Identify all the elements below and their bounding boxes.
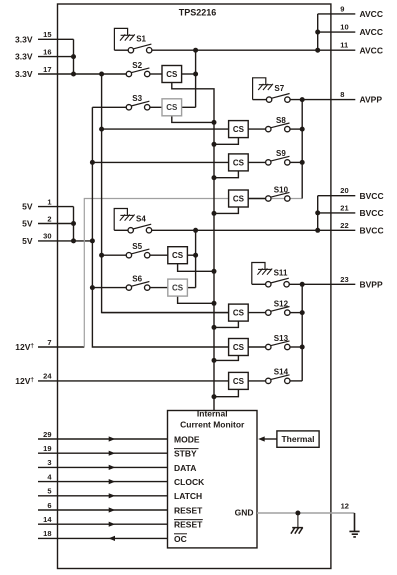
svg-text:RESET: RESET: [174, 505, 203, 515]
wire S3 input 5V: [92, 106, 126, 108]
signal arrow Thermal: [258, 436, 265, 441]
wire S6 CS sense link junction: [212, 301, 217, 306]
svg-text:S12: S12: [274, 299, 289, 308]
junction S5 output: [193, 253, 198, 258]
pin 24 stub 12V / S14 input wire: [38, 380, 229, 382]
wire S10 inter: [248, 198, 265, 200]
svg-text:TPS2216: TPS2216: [179, 7, 217, 17]
signal arrow LATCH: [109, 493, 116, 498]
svg-text:S2: S2: [132, 61, 142, 70]
junction S9 input: [90, 160, 95, 165]
wire S14 CS sense link junction: [212, 394, 217, 399]
junction 5V drop tap: [90, 238, 95, 243]
junction pin30 bus: [71, 238, 76, 243]
svg-text:S1: S1: [136, 34, 146, 43]
signal arrow CLOCK: [109, 479, 116, 484]
wire S12 input: [102, 312, 229, 314]
svg-text:CS: CS: [233, 158, 245, 167]
svg-text:AVCC: AVCC: [360, 45, 383, 55]
wire S6 output: [187, 287, 195, 289]
svg-text:CLOCK: CLOCK: [174, 477, 205, 487]
earth ground symbol pin 12: [349, 513, 359, 537]
svg-text:CS: CS: [166, 70, 178, 79]
svg-text:5V: 5V: [22, 236, 33, 246]
svg-text:LATCH: LATCH: [174, 491, 202, 501]
pin 5 control stub LATCH: [38, 495, 168, 497]
svg-text:2: 2: [47, 214, 51, 223]
junction S8 input: [99, 127, 104, 132]
svg-text:6: 6: [47, 501, 51, 510]
wire chassis ground stub: [297, 513, 299, 528]
svg-text:S3: S3: [132, 94, 142, 103]
svg-text:CS: CS: [172, 251, 184, 260]
pin 14 control stub RESET: [38, 523, 168, 525]
wire S2 inter: [150, 73, 162, 75]
switch S10: [266, 185, 290, 201]
wire S13 inter: [248, 346, 265, 348]
wire S5 output: [187, 254, 195, 256]
switch S14: [266, 368, 290, 384]
svg-text:DATA: DATA: [174, 463, 196, 473]
current sense CS for S14: [229, 372, 249, 389]
wire AVCC collector bus: [195, 50, 197, 107]
pin 15 stub 3.3V: [38, 38, 74, 40]
wire S1 output / pin 11 row: [152, 49, 355, 51]
wire S5 CS sense link: [178, 264, 214, 272]
switch S9: [266, 149, 290, 165]
junction 3.3V drop tap: [99, 72, 104, 77]
pin 16 stub 3.3V: [38, 56, 74, 58]
signal arrow RESET: [109, 522, 116, 527]
signal arrow RESET: [109, 507, 116, 512]
wire AVPP junction bus: [301, 100, 303, 199]
svg-text:CS: CS: [233, 125, 245, 134]
switch S7 latching: [253, 78, 290, 103]
wire S9 inter: [248, 161, 265, 163]
wire S5 CS sense link junction: [212, 269, 217, 274]
svg-text:17: 17: [43, 65, 51, 74]
svg-text:3: 3: [47, 458, 51, 467]
pin 7 stub 12V: [38, 346, 84, 348]
junction S13 output: [300, 345, 305, 350]
pin 1 stub 5V: [38, 206, 74, 208]
switch S1 latching: [114, 28, 151, 53]
svg-text:20: 20: [340, 186, 348, 195]
pin 19 control stub STBY: [38, 452, 168, 454]
switch S6: [126, 274, 150, 290]
junction S12 output: [300, 310, 305, 315]
junction S11 output: [300, 282, 305, 287]
wire 12V A-side gray net: [84, 199, 302, 348]
chassis ground symbol: [291, 528, 303, 534]
wire S14 inter: [248, 380, 265, 382]
junction S4 output bus: [193, 228, 198, 233]
svg-text:BVCC: BVCC: [360, 225, 384, 235]
junction S1-S3 bus top: [193, 48, 198, 53]
junction S7 output: [300, 97, 305, 102]
pin 17 stub 3.3V / S2 input wire: [38, 73, 126, 75]
svg-text:18: 18: [43, 529, 51, 538]
svg-text:21: 21: [340, 203, 348, 212]
wire S13 out to bus: [290, 346, 302, 348]
wire S9 CS sense link: [214, 171, 238, 178]
wire S12 CS sense link: [214, 321, 238, 327]
svg-text:BVCC: BVCC: [360, 208, 384, 218]
wire S12 CS sense link junction: [212, 325, 217, 330]
junction pin17 bus: [71, 72, 76, 77]
svg-text:BVCC: BVCC: [360, 191, 384, 201]
svg-text:7: 7: [47, 338, 51, 347]
wire S5 input 3.3V: [102, 254, 127, 256]
wire 5V pin bus: [73, 207, 75, 241]
svg-text:BVPP: BVPP: [360, 279, 383, 289]
wire S8 CS sense link junction: [212, 142, 217, 147]
wire S3 inter: [150, 106, 162, 108]
wire S13 CS sense link: [214, 356, 238, 361]
pin 2 stub 5V: [38, 223, 74, 225]
svg-text:15: 15: [43, 30, 51, 39]
svg-text:29: 29: [43, 430, 51, 439]
svg-text:CS: CS: [172, 284, 184, 293]
pin 21 stub BVCC: [318, 212, 356, 214]
wire S6 input 5V: [92, 287, 126, 289]
wire BVPP junction bus: [301, 284, 303, 381]
svg-text:S11: S11: [274, 269, 288, 278]
svg-text:22: 22: [340, 221, 348, 230]
signal arrow DATA: [109, 465, 116, 470]
svg-text:3.3V: 3.3V: [15, 34, 33, 44]
wire GND net gray: [257, 512, 355, 514]
wire S12 out to bus: [290, 312, 302, 314]
wire 5V drop bus to S13: [92, 107, 228, 347]
wire S14 out to bus: [290, 380, 302, 382]
svg-text:5: 5: [47, 487, 51, 496]
wire S9 out to bus: [290, 161, 302, 163]
svg-text:S5: S5: [132, 242, 142, 251]
junction pin2 bus: [71, 221, 76, 226]
wire S3 CS sense link: [172, 116, 214, 123]
wire S9 CS sense link junction: [212, 175, 217, 180]
junction BVCC pin21: [315, 210, 320, 215]
svg-text:RESET: RESET: [174, 520, 203, 530]
svg-text:19: 19: [43, 444, 51, 453]
svg-text:Internal: Internal: [197, 409, 228, 419]
wire 3.3V drop bus to S12: [102, 74, 229, 313]
svg-text:11: 11: [340, 41, 348, 50]
svg-text:AVPP: AVPP: [360, 95, 383, 105]
svg-text:AVCC: AVCC: [360, 27, 383, 37]
svg-text:1: 1: [47, 197, 51, 206]
svg-text:S14: S14: [274, 368, 289, 377]
junction S6 input: [90, 285, 95, 290]
signal arrow STBY: [109, 451, 116, 456]
wire S3 CS sense link junction: [212, 120, 217, 125]
wire S3 output: [182, 106, 196, 108]
block Thermal: [277, 431, 319, 447]
svg-text:8: 8: [340, 90, 344, 99]
svg-text:AVCC: AVCC: [360, 9, 383, 19]
svg-text:3.3V: 3.3V: [15, 52, 33, 62]
wire current-sense bus: [172, 83, 214, 411]
svg-text:S7: S7: [274, 84, 284, 93]
pin 18 control stub OC: [38, 537, 168, 539]
pin 9 stub AVCC: [318, 13, 356, 15]
current sense CS for S12: [229, 304, 249, 321]
junction S9 output: [300, 160, 305, 165]
wire BVCC pin bus: [317, 196, 319, 231]
wire BVCC collector bus: [195, 230, 197, 287]
wire S10 CS sense link: [214, 207, 238, 213]
svg-text:3.3V: 3.3V: [15, 69, 33, 79]
current sense CS for S10: [229, 190, 249, 207]
svg-text:OC: OC: [174, 534, 187, 544]
wire S2 output: [182, 73, 196, 75]
svg-text:5V: 5V: [22, 219, 33, 229]
current sense CS for S6 (gray): [168, 279, 188, 296]
switch S8: [266, 116, 290, 132]
pin 3 control stub DATA: [38, 466, 168, 468]
pin 29 control stub MODE: [38, 438, 168, 440]
svg-text:CS: CS: [166, 103, 178, 112]
current sense CS for S8: [229, 121, 249, 138]
svg-text:MODE: MODE: [174, 434, 200, 444]
switch S13: [266, 334, 290, 350]
svg-text:CS: CS: [233, 343, 245, 352]
junction pin16 bus: [71, 54, 76, 59]
svg-text:12: 12: [341, 502, 349, 511]
svg-text:4: 4: [47, 472, 52, 481]
junction GND chassis tap: [295, 511, 300, 516]
svg-text:S10: S10: [274, 185, 289, 194]
switch S3: [126, 94, 150, 110]
switch S2: [126, 61, 150, 77]
junction S2 output: [193, 72, 198, 77]
current sense CS for S9: [229, 154, 249, 171]
pin 4 control stub CLOCK: [38, 481, 168, 483]
svg-text:CS: CS: [233, 309, 245, 318]
wire S13 CS sense link junction: [212, 358, 217, 363]
block Internal Current Monitor: [168, 411, 258, 548]
svg-text:9: 9: [340, 4, 344, 13]
svg-text:5V: 5V: [22, 202, 33, 212]
wire S8 inter: [248, 128, 265, 130]
switch S11 latching: [252, 263, 289, 287]
svg-text:CS: CS: [233, 377, 245, 386]
junction S8 output: [300, 127, 305, 132]
wire S10 CS sense link junction: [212, 211, 217, 216]
svg-text:GND: GND: [235, 508, 254, 518]
svg-text:Thermal: Thermal: [281, 434, 314, 444]
wire S14 CS sense link: [214, 389, 238, 396]
svg-text:16: 16: [43, 47, 51, 56]
current sense CS for S13: [229, 339, 249, 356]
switch S4 latching: [114, 209, 152, 234]
wire S6 inter: [150, 287, 168, 289]
wire S8 out to bus: [290, 128, 302, 130]
wire S5 inter: [150, 254, 168, 256]
wire S8 input 3.3V: [102, 128, 229, 130]
svg-text:S6: S6: [132, 274, 142, 283]
current sense CS for S3 (gray): [162, 99, 182, 116]
switch S5: [126, 242, 150, 258]
svg-text:S9: S9: [276, 149, 286, 158]
svg-text:Current Monitor: Current Monitor: [180, 420, 245, 430]
junction BVCC pin22: [315, 228, 320, 233]
wire S9 input 5V: [92, 161, 228, 163]
wire AVCC pin bus: [317, 14, 319, 50]
pin 20 stub BVCC: [318, 195, 356, 197]
wire Thermal to monitor: [265, 438, 277, 440]
switch S12: [266, 299, 290, 315]
svg-text:STBY: STBY: [174, 449, 197, 459]
svg-text:30: 30: [43, 232, 51, 241]
svg-text:24: 24: [43, 372, 52, 381]
svg-text:12V†: 12V†: [15, 376, 34, 386]
svg-text:14: 14: [43, 515, 52, 524]
pin 10 stub AVCC: [318, 31, 356, 33]
signal arrow OC: [109, 536, 116, 541]
svg-text:23: 23: [340, 275, 348, 284]
junction S5 input: [99, 253, 104, 258]
wire S8 CS sense link: [214, 138, 238, 145]
wire S12 inter: [248, 312, 265, 314]
junction AVCC pin10: [315, 30, 320, 35]
pin 6 control stub RESET: [38, 509, 168, 511]
junction AVCC pin11: [315, 48, 320, 53]
current sense CS for S5: [168, 247, 188, 264]
wire S11 output / pin 23 row: [289, 283, 355, 285]
wire S4 output / pin 22 row: [152, 229, 356, 231]
IC outline TPS2216: [58, 4, 331, 569]
svg-text:S13: S13: [274, 334, 289, 343]
wire S6 CS sense link: [178, 296, 214, 303]
signal arrow MODE: [109, 436, 116, 441]
svg-text:S4: S4: [136, 215, 146, 224]
wire S7 output / pin 8 row: [290, 99, 355, 101]
current sense CS for S2: [162, 66, 182, 83]
svg-text:CS: CS: [233, 194, 245, 203]
svg-text:10: 10: [340, 23, 348, 32]
pin 30 stub 5V: [38, 240, 92, 242]
svg-text:S8: S8: [276, 116, 286, 125]
svg-text:12V†: 12V†: [15, 342, 34, 352]
wire 3.3V pin bus: [73, 39, 75, 74]
